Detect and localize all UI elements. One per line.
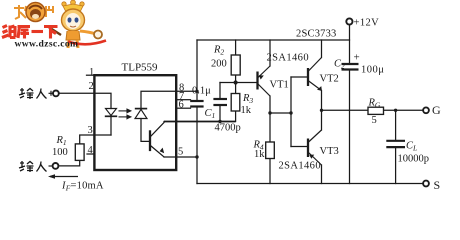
svg-text:2SA1460: 2SA1460 — [267, 53, 309, 64]
svg-text:2SC3733: 2SC3733 — [296, 29, 337, 40]
svg-text:1: 1 — [89, 67, 94, 78]
svg-text:TLP559: TLP559 — [122, 62, 159, 74]
svg-text:G: G — [432, 103, 441, 117]
svg-text:10000p: 10000p — [398, 154, 430, 165]
svg-text:100: 100 — [52, 147, 68, 158]
svg-text:5: 5 — [372, 115, 377, 126]
svg-text:4: 4 — [88, 145, 94, 156]
svg-text:3: 3 — [88, 125, 93, 136]
svg-text:VT2: VT2 — [320, 74, 339, 85]
svg-text:200: 200 — [211, 59, 227, 70]
svg-text:100μ: 100μ — [361, 65, 384, 76]
svg-text:2: 2 — [89, 81, 94, 92]
svg-text:S: S — [434, 178, 441, 192]
svg-text:VT1: VT1 — [270, 80, 289, 91]
svg-text:1k: 1k — [241, 105, 252, 116]
svg-text:+: + — [354, 52, 360, 64]
svg-text:5: 5 — [178, 147, 183, 158]
svg-text:+12V: +12V — [354, 18, 380, 29]
svg-text:1k: 1k — [254, 149, 265, 160]
svg-text:4700p: 4700p — [215, 123, 241, 134]
svg-text:0.1μ: 0.1μ — [192, 86, 211, 97]
svg-text:VT3: VT3 — [320, 146, 339, 157]
svg-text:2SA1460: 2SA1460 — [279, 161, 321, 172]
svg-text:www.dzsc.com: www.dzsc.com — [15, 39, 79, 50]
svg-text:6: 6 — [179, 100, 184, 111]
